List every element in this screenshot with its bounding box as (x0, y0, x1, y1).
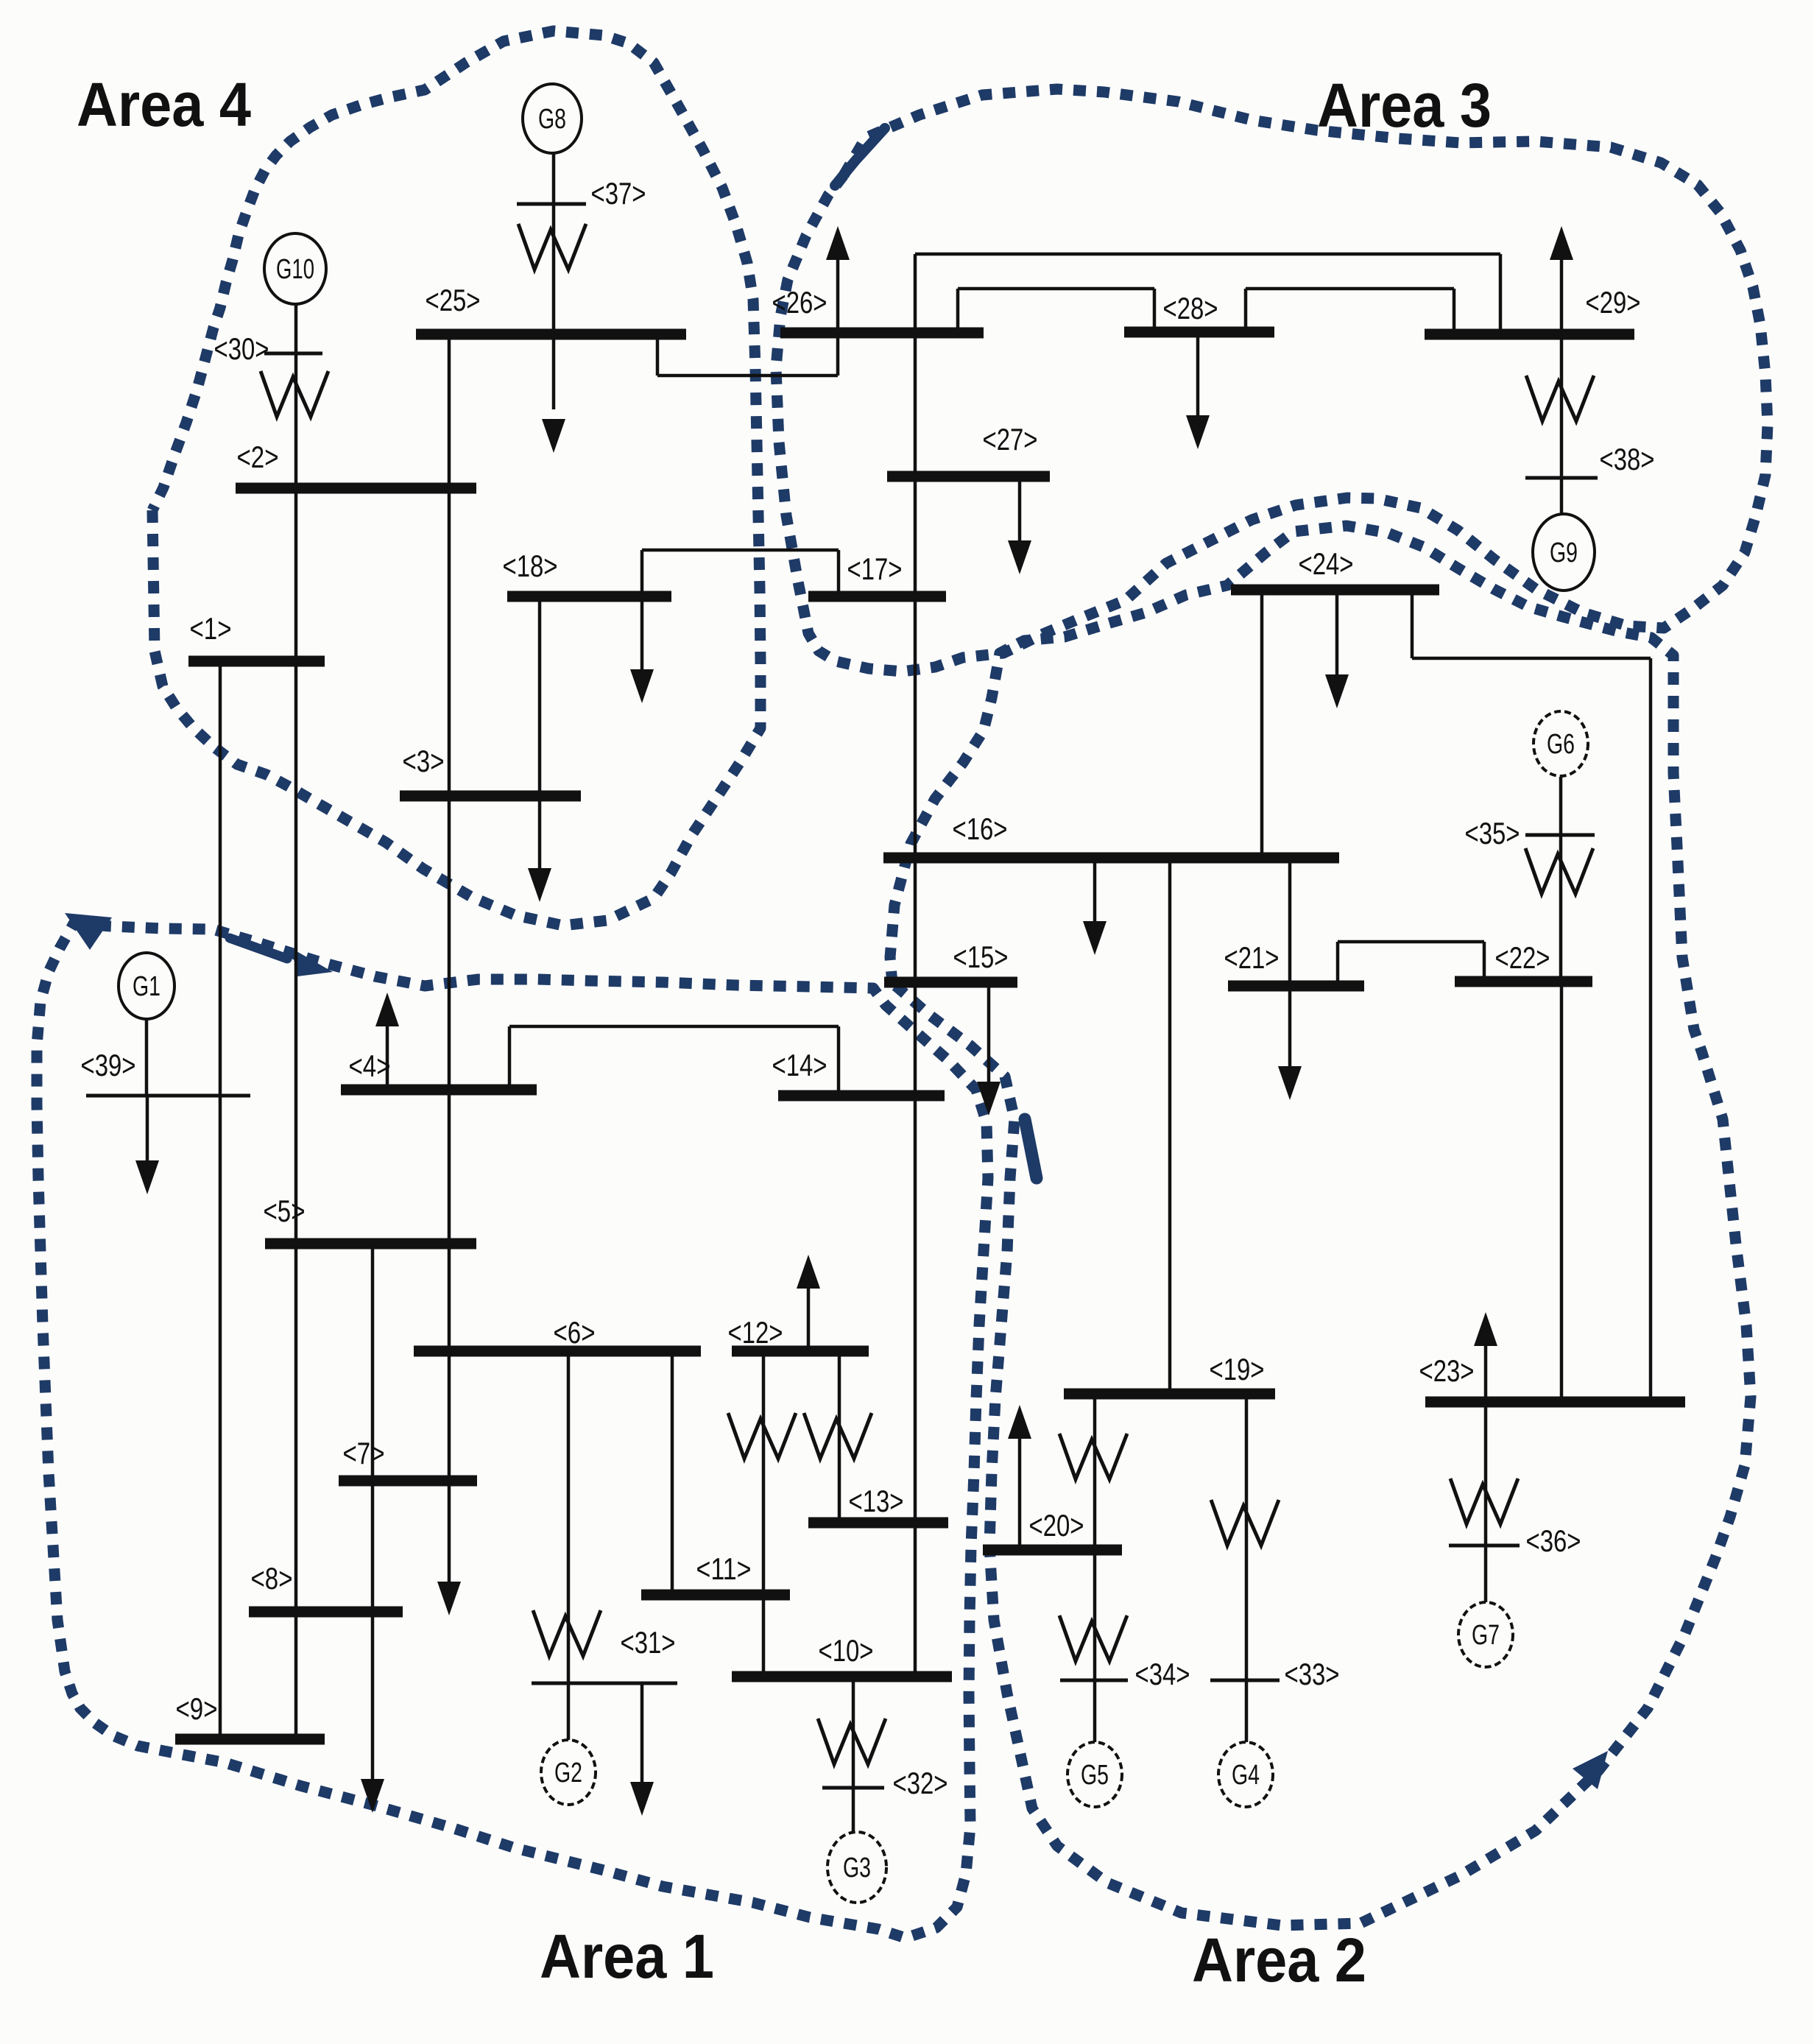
svg-text:<30>: <30> (214, 331, 269, 366)
svg-text:G6: G6 (1547, 729, 1575, 760)
svg-text:<3>: <3> (403, 744, 445, 778)
svg-text:<9>: <9> (176, 1691, 218, 1726)
svg-text:<19>: <19> (1210, 1352, 1265, 1386)
svg-text:<12>: <12> (728, 1315, 783, 1350)
svg-text:<13>: <13> (849, 1484, 904, 1518)
svg-text:<22>: <22> (1495, 940, 1550, 975)
svg-text:<27>: <27> (983, 422, 1038, 457)
svg-text:<23>: <23> (1419, 1353, 1475, 1388)
svg-text:G5: G5 (1081, 1760, 1109, 1791)
svg-text:<2>: <2> (237, 440, 279, 474)
svg-text:<29>: <29> (1586, 285, 1641, 320)
svg-text:<16>: <16> (953, 811, 1008, 846)
svg-text:<11>: <11> (696, 1551, 752, 1586)
svg-text:<1>: <1> (190, 611, 232, 646)
svg-text:<21>: <21> (1224, 940, 1280, 975)
svg-text:G2: G2 (554, 1758, 582, 1788)
svg-text:<34>: <34> (1135, 1657, 1190, 1691)
svg-text:<7>: <7> (343, 1436, 385, 1470)
svg-text:G10: G10 (276, 254, 314, 285)
svg-text:<33>: <33> (1285, 1657, 1340, 1691)
svg-text:<28>: <28> (1163, 291, 1218, 325)
svg-text:<17>: <17> (847, 551, 903, 586)
svg-text:<25>: <25> (426, 283, 481, 317)
svg-text:<6>: <6> (554, 1315, 596, 1350)
svg-text:Area 3: Area 3 (1317, 71, 1492, 140)
svg-text:G3: G3 (843, 1853, 871, 1883)
svg-text:<36>: <36> (1526, 1523, 1581, 1558)
svg-text:Area 1: Area 1 (540, 1922, 714, 1991)
svg-text:G1: G1 (133, 971, 160, 1002)
svg-text:Area 4: Area 4 (77, 70, 251, 139)
svg-text:G8: G8 (538, 104, 566, 135)
svg-text:<15>: <15> (953, 940, 1009, 974)
svg-text:<4>: <4> (349, 1049, 391, 1083)
svg-text:<5>: <5> (264, 1194, 306, 1228)
svg-text:<35>: <35> (1465, 816, 1520, 850)
svg-text:<8>: <8> (251, 1561, 293, 1596)
svg-text:G9: G9 (1550, 538, 1578, 568)
svg-text:G7: G7 (1472, 1620, 1500, 1651)
svg-text:<31>: <31> (621, 1625, 676, 1660)
svg-text:<37>: <37> (591, 176, 646, 211)
svg-text:<38>: <38> (1600, 442, 1655, 476)
svg-text:<32>: <32> (893, 1766, 948, 1800)
svg-text:<20>: <20> (1029, 1508, 1084, 1543)
svg-text:<10>: <10> (819, 1633, 874, 1668)
svg-text:Area 2: Area 2 (1192, 1925, 1366, 1995)
svg-text:<24>: <24> (1299, 546, 1354, 581)
svg-text:<39>: <39> (81, 1048, 136, 1082)
svg-text:<14>: <14> (772, 1048, 827, 1082)
svg-text:<26>: <26> (772, 285, 827, 320)
svg-text:<18>: <18> (503, 549, 558, 583)
svg-text:G4: G4 (1232, 1760, 1260, 1791)
